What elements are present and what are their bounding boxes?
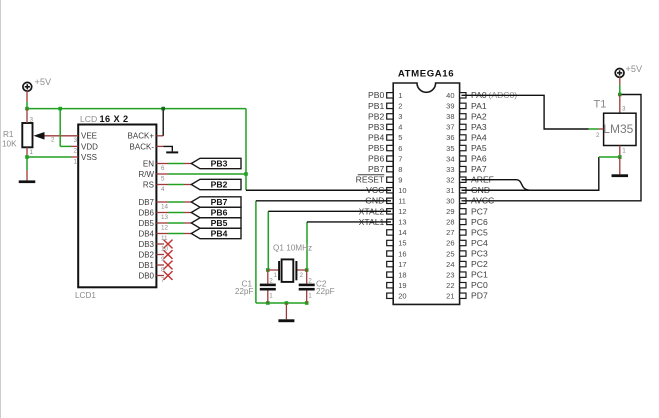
svg-text:28: 28 <box>446 218 454 227</box>
svg-text:PC6: PC6 <box>471 217 488 227</box>
svg-text:8: 8 <box>398 165 402 174</box>
svg-text:PB7: PB7 <box>211 197 228 207</box>
svg-text:14: 14 <box>398 228 406 237</box>
svg-text:25: 25 <box>446 249 454 258</box>
svg-text:VEE: VEE <box>81 132 97 141</box>
svg-text:33: 33 <box>446 165 454 174</box>
svg-text:DB7: DB7 <box>138 198 154 207</box>
svg-text:DB5: DB5 <box>138 219 154 228</box>
svg-text:39: 39 <box>446 102 454 111</box>
svg-text:32: 32 <box>446 175 454 184</box>
svg-text:22: 22 <box>446 281 454 290</box>
svg-text:26: 26 <box>446 239 454 248</box>
svg-text:1: 1 <box>73 158 77 165</box>
svg-text:T1: T1 <box>594 98 607 110</box>
svg-text:PC0: PC0 <box>471 280 488 290</box>
svg-text:2: 2 <box>398 102 402 111</box>
svg-text:2: 2 <box>269 277 273 284</box>
svg-text:2: 2 <box>308 277 312 284</box>
svg-text:1: 1 <box>398 91 402 100</box>
svg-text:24: 24 <box>446 260 454 269</box>
svg-text:11: 11 <box>161 235 168 242</box>
svg-text:9: 9 <box>398 175 402 184</box>
svg-text:37: 37 <box>446 123 454 132</box>
svg-text:DB0: DB0 <box>138 271 154 280</box>
svg-text:PD7: PD7 <box>471 291 488 301</box>
svg-text:PB4: PB4 <box>211 229 228 239</box>
svg-text:5: 5 <box>398 133 402 142</box>
svg-text:PC2: PC2 <box>471 259 488 269</box>
svg-text:1: 1 <box>30 149 34 156</box>
svg-text:36: 36 <box>446 133 454 142</box>
svg-text:RESET: RESET <box>356 175 385 185</box>
svg-text:2: 2 <box>300 272 304 279</box>
svg-text:PA6: PA6 <box>471 154 487 164</box>
svg-text:DB2: DB2 <box>138 250 154 259</box>
svg-text:PB0: PB0 <box>368 90 384 100</box>
svg-text:PA1: PA1 <box>471 101 487 111</box>
svg-text:PB4: PB4 <box>368 132 384 142</box>
svg-text:13: 13 <box>161 214 169 221</box>
svg-text:16 X 2: 16 X 2 <box>100 114 129 124</box>
svg-text:23: 23 <box>446 270 454 279</box>
svg-text:14: 14 <box>161 204 169 211</box>
svg-text:13: 13 <box>398 218 406 227</box>
svg-text:PB1: PB1 <box>368 101 384 111</box>
svg-text:35: 35 <box>446 144 454 153</box>
svg-text:LCD: LCD <box>80 114 97 124</box>
svg-text:31: 31 <box>446 186 454 195</box>
svg-text:6: 6 <box>161 165 165 172</box>
svg-text:LCD1: LCD1 <box>75 291 96 300</box>
svg-text:29: 29 <box>446 207 454 216</box>
svg-text:7: 7 <box>161 277 165 284</box>
svg-text:11: 11 <box>398 197 406 206</box>
svg-text:8: 8 <box>161 267 165 274</box>
svg-text:3: 3 <box>398 112 402 121</box>
svg-text:9: 9 <box>161 256 165 263</box>
svg-text:5: 5 <box>161 176 165 183</box>
svg-text:PB2: PB2 <box>368 111 384 121</box>
svg-text:+5V: +5V <box>35 77 52 87</box>
svg-text:4: 4 <box>398 123 402 132</box>
svg-text:PA3: PA3 <box>471 122 487 132</box>
svg-text:21: 21 <box>446 291 454 300</box>
svg-text:19: 19 <box>398 281 406 290</box>
svg-text:12: 12 <box>398 207 406 216</box>
svg-text:PC7: PC7 <box>471 206 488 216</box>
svg-text:2: 2 <box>596 132 600 139</box>
svg-text:DB6: DB6 <box>138 208 154 217</box>
svg-text:40: 40 <box>446 91 454 100</box>
svg-text:38: 38 <box>446 112 454 121</box>
svg-text:34: 34 <box>446 154 454 163</box>
svg-text:1: 1 <box>274 272 278 279</box>
svg-text:10: 10 <box>398 186 406 195</box>
svg-text:22pF: 22pF <box>235 287 254 296</box>
svg-text:PA5: PA5 <box>471 143 487 153</box>
svg-text:PB5: PB5 <box>368 143 384 153</box>
svg-text:6: 6 <box>398 144 402 153</box>
svg-text:Q1 10MHz: Q1 10MHz <box>273 244 312 253</box>
svg-text:ATMEGA16: ATMEGA16 <box>398 68 454 79</box>
svg-text:R/W: R/W <box>138 170 154 179</box>
svg-text:R1: R1 <box>3 130 14 139</box>
svg-text:RS: RS <box>143 180 154 189</box>
svg-text:PB3: PB3 <box>368 122 384 132</box>
svg-text:20: 20 <box>398 291 406 300</box>
svg-text:LM35: LM35 <box>603 122 633 136</box>
svg-text:BACK+: BACK+ <box>128 132 155 141</box>
svg-text:3: 3 <box>622 105 626 112</box>
svg-text:PB2: PB2 <box>211 180 228 190</box>
svg-text:27: 27 <box>446 228 454 237</box>
svg-text:1: 1 <box>269 293 273 300</box>
svg-text:PC1: PC1 <box>471 270 488 280</box>
svg-text:4: 4 <box>161 186 165 193</box>
svg-text:30: 30 <box>446 197 454 206</box>
svg-text:VDD: VDD <box>81 142 98 151</box>
svg-text:PB3: PB3 <box>211 159 228 169</box>
svg-text:18: 18 <box>398 270 406 279</box>
svg-text:17: 17 <box>398 260 406 269</box>
svg-text:BACK-: BACK- <box>130 142 155 151</box>
svg-text:VSS: VSS <box>81 153 97 162</box>
svg-text:PB5: PB5 <box>211 218 228 228</box>
svg-text:7: 7 <box>398 154 402 163</box>
svg-text:16: 16 <box>398 249 406 258</box>
svg-text:PA2: PA2 <box>471 111 487 121</box>
svg-text:1: 1 <box>622 148 626 155</box>
svg-text:PA4: PA4 <box>471 132 487 142</box>
svg-text:PC3: PC3 <box>471 248 488 258</box>
svg-text:22pF: 22pF <box>316 287 335 296</box>
svg-text:10K: 10K <box>2 140 17 149</box>
svg-text:DB1: DB1 <box>138 261 154 270</box>
svg-text:+5V: +5V <box>626 64 643 74</box>
svg-text:10: 10 <box>161 246 169 253</box>
svg-text:12: 12 <box>161 225 169 232</box>
svg-text:EN: EN <box>143 159 154 168</box>
svg-text:PC5: PC5 <box>471 227 488 237</box>
svg-text:DB4: DB4 <box>138 229 154 238</box>
svg-text:PB7: PB7 <box>368 164 384 174</box>
svg-text:PB6: PB6 <box>368 154 384 164</box>
svg-text:2: 2 <box>51 137 55 144</box>
svg-text:15: 15 <box>398 239 406 248</box>
svg-text:PC4: PC4 <box>471 238 488 248</box>
svg-text:3: 3 <box>30 117 34 124</box>
svg-text:PB6: PB6 <box>211 208 228 218</box>
svg-text:3: 3 <box>73 137 77 144</box>
svg-text:PA7: PA7 <box>471 164 487 174</box>
svg-text:2: 2 <box>73 148 77 155</box>
svg-text:DB3: DB3 <box>138 240 154 249</box>
svg-text:1: 1 <box>308 293 312 300</box>
